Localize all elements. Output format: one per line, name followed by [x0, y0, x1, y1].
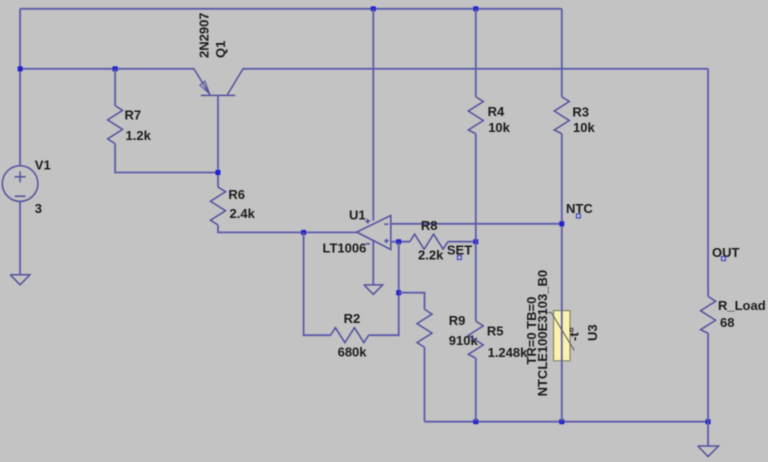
- resistor R7: [108, 69, 218, 173]
- op-amp U1: [357, 216, 391, 250]
- node junction R8 / R4R5 column: [473, 239, 478, 244]
- wire Q1 base down: [217, 95, 219, 187]
- resistor R3: [554, 97, 569, 311]
- svg-text:1.2k: 1.2k: [126, 128, 152, 143]
- node SET marker: [457, 256, 461, 260]
- svg-text:R_Load: R_Load: [718, 298, 766, 313]
- wire opamp V- stub: [372, 241, 374, 285]
- node junction plus input: [396, 239, 401, 244]
- node junction R5 bottom: [473, 419, 478, 424]
- node junction V1 column / second rail: [18, 66, 23, 71]
- svg-text:R3: R3: [572, 105, 589, 120]
- resistor R2: [331, 242, 399, 343]
- svg-text:1.248k: 1.248k: [488, 345, 529, 360]
- wire bottom rail: [425, 421, 709, 423]
- wire R3 column top: [561, 9, 563, 97]
- wire opamp V+ from top rail: [372, 9, 374, 221]
- resistor R4: [468, 97, 483, 242]
- svg-text:2.2k: 2.2k: [418, 248, 444, 263]
- svg-text:LT1006: LT1006: [323, 241, 367, 256]
- svg-text:R5: R5: [487, 324, 504, 339]
- wire right edge down to R_Load: [707, 69, 709, 297]
- ground below opamp: [364, 285, 383, 294]
- wire R2 column: [304, 232, 331, 335]
- node junction NTC: [559, 221, 564, 226]
- wire second rail right segment: [243, 68, 708, 70]
- node junction top rail / opamp power: [371, 6, 376, 11]
- resistor R6: [211, 187, 357, 232]
- node NTC marker: [576, 214, 580, 218]
- svg-text:R6: R6: [228, 187, 245, 202]
- svg-text:R4: R4: [488, 104, 505, 119]
- svg-text:2.4k: 2.4k: [230, 206, 256, 221]
- wire R4 column: [475, 9, 477, 97]
- resistor R_Load: [701, 296, 716, 421]
- svg-text:R7: R7: [125, 108, 142, 123]
- svg-text:U3: U3: [585, 324, 600, 341]
- resistor R9: [417, 309, 432, 421]
- svg-text:R8: R8: [421, 218, 438, 233]
- svg-text:Q1: Q1: [213, 41, 228, 58]
- transistor Q1: [194, 68, 244, 95]
- svg-text:910k: 910k: [449, 333, 479, 348]
- node junction top rail / R4: [473, 6, 478, 11]
- svg-text:R2: R2: [344, 311, 361, 326]
- node junction R7 top: [113, 66, 118, 71]
- wire R5 column: [475, 242, 477, 321]
- svg-text:10k: 10k: [573, 120, 595, 135]
- svg-text:V1: V1: [35, 158, 51, 173]
- svg-text:NTCLE100E3103_B0: NTCLE100E3103_B0: [535, 270, 550, 396]
- wire second rail left segment: [20, 68, 194, 70]
- node junction output row / R2 branch: [301, 230, 306, 235]
- wire opamp plus input: [391, 241, 410, 243]
- node junction base / R7: [216, 170, 221, 175]
- svg-text:2N2907: 2N2907: [197, 12, 212, 58]
- resistor R8: [410, 234, 476, 249]
- wire left vertical V1 top: [19, 9, 21, 166]
- wire opamp minus input to NTC: [391, 223, 562, 225]
- svg-text:3: 3: [35, 201, 42, 216]
- svg-text:-t°: -t°: [567, 327, 582, 341]
- thermistor U3: [546, 311, 575, 422]
- voltage source V1: [2, 166, 38, 202]
- node junction R_Load bottom: [706, 419, 711, 424]
- wire top rail: [20, 8, 562, 10]
- svg-text:680k: 680k: [338, 344, 368, 359]
- node OUT marker: [722, 257, 726, 261]
- svg-text:68: 68: [720, 315, 734, 330]
- node junction U3 bottom: [559, 419, 564, 424]
- svg-text:10k: 10k: [488, 120, 510, 135]
- wire R9 branch: [399, 293, 425, 310]
- svg-text:U1: U1: [349, 207, 366, 222]
- resistor R5: [468, 321, 483, 422]
- svg-text:R9: R9: [449, 313, 466, 328]
- wire V1 bottom stub: [19, 201, 21, 274]
- node junction R2 column / R9 branch: [396, 290, 401, 295]
- ground bottom right: [698, 446, 719, 457]
- ground below V1: [10, 275, 30, 285]
- wire ground stub bottom right: [707, 422, 709, 446]
